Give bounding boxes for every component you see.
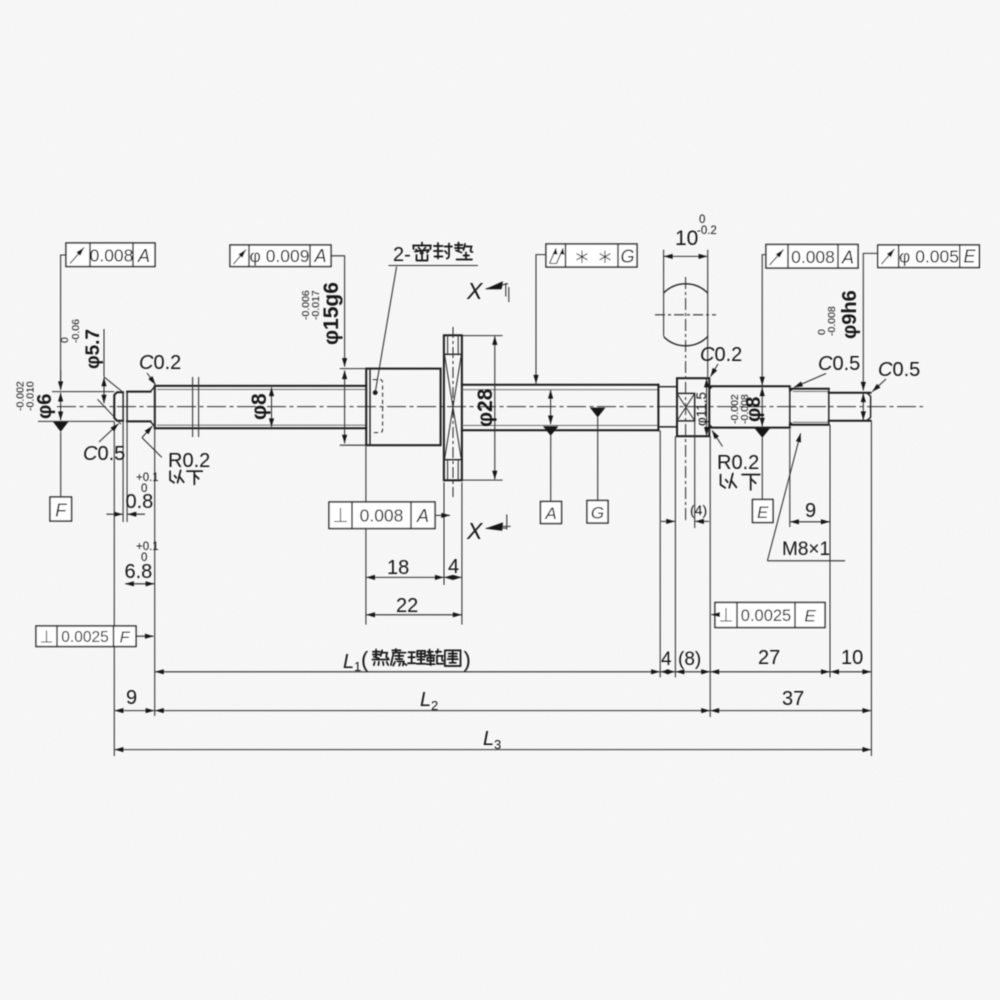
- datum A box: [541, 502, 562, 524]
- tip end face with chamfers: [867, 393, 871, 421]
- svg-text:G: G: [591, 504, 604, 523]
- ring groove 0.8 wide: [122, 392, 124, 420]
- dim L1 arrows: [155, 671, 660, 673]
- perpendicularity frame A: [329, 502, 435, 529]
- flange outline: [444, 335, 462, 480]
- block chamfer line: [369, 369, 371, 446]
- datum G stem: [597, 417, 599, 500]
- svg-text:G: G: [620, 247, 634, 267]
- datum E box: [753, 500, 774, 523]
- leader C0.5 right 2: [872, 379, 886, 392]
- dim L3 arrows: [115, 749, 871, 751]
- phi9h6 dimension arrows: [862, 393, 864, 420]
- svg-text:9: 9: [805, 500, 816, 522]
- runout frame 1 leader: [61, 255, 66, 389]
- collar right extension: [709, 436, 711, 717]
- dim 4 flange: [444, 576, 461, 578]
- phi8 right dimension arrows: [761, 387, 763, 426]
- svg-text:L: L: [483, 728, 494, 750]
- svg-text:2-: 2-: [393, 244, 411, 266]
- svg-text:27: 27: [758, 647, 780, 669]
- svg-text:10: 10: [675, 227, 698, 250]
- thread start marks: [192, 377, 194, 437]
- ball screw thread root lines: [462, 390, 658, 426]
- svg-text:0.008: 0.008: [360, 506, 404, 526]
- dim 6.8: [125, 583, 154, 585]
- dim 10 bottom: [830, 671, 871, 673]
- phi8 right chamfer: [709, 386, 712, 427]
- svg-text:10: 10: [841, 647, 863, 669]
- leader C0.2 left: [147, 373, 156, 385]
- svg-text:(4): (4): [690, 502, 707, 518]
- flange cap inner edges: [448, 335, 459, 480]
- svg-text:φ15g6: φ15g6: [320, 282, 343, 345]
- svg-text:E: E: [963, 247, 976, 267]
- dim 4 bottom: [661, 671, 676, 673]
- dim 18: [366, 576, 443, 578]
- dim 37 arrows: [711, 710, 872, 712]
- svg-text:L: L: [343, 651, 354, 673]
- dim (4) arrows: [661, 520, 675, 522]
- M8x1 underline: [767, 560, 845, 562]
- svg-text:R0.2: R0.2: [168, 450, 210, 472]
- section line X-X through flange: [452, 327, 454, 497]
- CJK glyph chu (treatment): [391, 649, 407, 666]
- svg-text:-0.010: -0.010: [25, 381, 37, 411]
- svg-text:4: 4: [448, 556, 459, 578]
- label 2-seal washer underline: [389, 265, 479, 267]
- screw end face: [657, 385, 659, 431]
- svg-text:C0.5: C0.5: [818, 353, 860, 375]
- svg-text:F: F: [120, 630, 131, 647]
- svg-text:0.0025: 0.0025: [61, 629, 108, 646]
- ball center cross horizontal: [655, 314, 716, 316]
- thread dimension arrows above datum A: [550, 390, 552, 424]
- svg-text:A: A: [313, 246, 326, 266]
- svg-text:φ9h6: φ9h6: [839, 290, 861, 339]
- phi6 extension lines: [38, 392, 114, 422]
- step extension line: [154, 386, 156, 716]
- svg-text:A: A: [416, 506, 429, 526]
- phi8 right journal: [709, 386, 790, 427]
- leader R0.2 left: [142, 438, 162, 458]
- phi11.5 dimension arrows: [706, 379, 708, 436]
- CJK glyph fan (range): [426, 649, 443, 665]
- phi28 dimension arrows: [494, 336, 496, 479]
- svg-text:0.8: 0.8: [126, 491, 154, 513]
- phi5.7 dimension line: [103, 329, 105, 377]
- CJK glyph re (heat): [372, 649, 389, 665]
- svg-text:0.0025: 0.0025: [741, 607, 791, 625]
- datum G box: [587, 501, 608, 524]
- phi15g6 journal block: [366, 369, 440, 446]
- datum F stem: [60, 432, 62, 497]
- M8 thread chamfer: [790, 389, 793, 425]
- svg-text:37: 37: [782, 688, 804, 710]
- phi15g6 extension lines: [340, 369, 366, 446]
- dim (8) bottom: [676, 671, 710, 673]
- datum F triangle: [53, 422, 68, 432]
- datum E stem: [761, 438, 763, 500]
- svg-text:A: A: [544, 504, 556, 523]
- asterisk marks: [577, 251, 588, 264]
- svg-text:-0.008: -0.008: [826, 306, 838, 336]
- svg-text:E: E: [757, 503, 769, 522]
- leader C0.5 right 1: [794, 374, 826, 388]
- chamfer C0.2 to phi8 step: [151, 386, 155, 426]
- perpendicularity frame F: [36, 626, 136, 647]
- svg-text:C0.5: C0.5: [878, 359, 920, 381]
- datum F box: [50, 497, 72, 521]
- dim 22: [366, 614, 461, 616]
- collar groove box with cross: [677, 393, 695, 421]
- ball screw thread section outline: [462, 385, 659, 431]
- M8x1 thread root lines: [793, 391, 829, 422]
- svg-text:A: A: [137, 246, 150, 266]
- svg-text:φ8: φ8: [743, 397, 765, 422]
- step face phi8 to thread: [789, 386, 791, 427]
- runout frame 5 leader: [863, 253, 878, 371]
- tip end extension: [870, 421, 872, 756]
- flange cap lines: [444, 354, 462, 459]
- seal hidden outline (dashed): [373, 380, 383, 433]
- flange cross mark: [445, 355, 462, 459]
- svg-text:0.008: 0.008: [791, 247, 835, 267]
- svg-text:C0.2: C0.2: [139, 352, 181, 374]
- svg-text:φ 0.005: φ 0.005: [899, 247, 959, 267]
- datum A triangle: [543, 426, 558, 436]
- phi8 left journal root lines: [157, 389, 366, 425]
- perpendicularity frame E: [715, 603, 825, 628]
- phi11.5 collar block: [677, 378, 709, 436]
- phi6 dimension arrows: [60, 393, 62, 420]
- end tip section: [829, 393, 871, 421]
- thread runout neck: [658, 387, 677, 427]
- svg-text:): ): [464, 647, 471, 672]
- svg-text:-0.2: -0.2: [697, 225, 717, 237]
- phi28 extension lines: [462, 336, 503, 481]
- svg-text:φ28: φ28: [474, 388, 497, 427]
- svg-text:-0.06: -0.06: [70, 319, 82, 343]
- leader M8x1: [767, 433, 800, 560]
- svg-text:φ5.7: φ5.7: [83, 329, 104, 369]
- CJK glyph mi (seal label): [413, 243, 431, 261]
- dim L2 arrows: [155, 710, 710, 712]
- CJK glyph li (process): [408, 651, 425, 664]
- extension lines 18/22: [366, 446, 462, 624]
- svg-text:4: 4: [661, 649, 672, 670]
- svg-text:E: E: [804, 607, 816, 626]
- svg-text:3: 3: [494, 737, 501, 752]
- M8x1 thread section crest: [790, 389, 829, 425]
- runout frame 2 leader: [331, 256, 345, 348]
- dim 10 top extension lines: [664, 250, 708, 378]
- svg-text:M8×1: M8×1: [782, 539, 830, 560]
- phi8 left journal outline: [155, 386, 366, 428]
- thread start extension: [789, 429, 791, 527]
- dim 9 right arrows: [790, 521, 829, 523]
- phi8 left dimension arrows: [271, 387, 273, 427]
- dim 9: [115, 710, 155, 712]
- svg-text:F: F: [55, 501, 67, 521]
- svg-text:C0.5: C0.5: [83, 443, 125, 465]
- vertical centerline through ball and collar: [685, 277, 687, 520]
- groove extension lines: [675, 421, 694, 678]
- svg-text:6.8: 6.8: [125, 561, 153, 583]
- screw end extension: [659, 431, 661, 678]
- svg-text:(8): (8): [678, 649, 701, 670]
- CJK yi-xia right (R0.2 or-less): [721, 474, 737, 488]
- runout frame 5: [878, 245, 980, 268]
- svg-text:R0.2: R0.2: [717, 452, 759, 474]
- ring groove extension lines: [123, 421, 127, 522]
- phi6 journal section: [127, 392, 150, 422]
- CJK glyph feng (seal label): [434, 243, 452, 259]
- center axis line: [57, 406, 923, 408]
- svg-text:C0.2: C0.2: [700, 344, 742, 366]
- svg-text:A: A: [841, 248, 854, 268]
- perpendicularity frame F arrow: [136, 635, 154, 637]
- datum E triangle: [755, 428, 770, 438]
- datum A stem: [550, 436, 552, 502]
- ball gauge circle over groove: [655, 284, 717, 346]
- svg-text:L: L: [420, 689, 431, 711]
- total runout frame: [546, 244, 637, 267]
- thread end extension: [829, 425, 831, 678]
- perpendicularity frame E arrow: [711, 614, 715, 616]
- dim 27 bottom: [711, 671, 830, 673]
- svg-text:18: 18: [387, 557, 409, 579]
- perpendicularity frame A arrow: [435, 514, 450, 516]
- seal leader dot: [373, 390, 378, 395]
- runout frame 4 leader: [762, 255, 766, 366]
- dim 10 top arrows: [664, 255, 707, 257]
- CJK glyph wei (enclosure): [445, 650, 461, 666]
- runout frame 4: [766, 245, 858, 269]
- svg-text:X: X: [466, 278, 484, 304]
- svg-text:2: 2: [431, 698, 438, 713]
- svg-text:X: X: [466, 518, 484, 544]
- svg-text:φ11.5: φ11.5: [694, 392, 709, 426]
- runout frame 2: [230, 245, 331, 267]
- svg-text:9: 9: [126, 687, 137, 709]
- svg-text:φ6: φ6: [34, 394, 56, 419]
- svg-text:22: 22: [396, 595, 418, 617]
- phi8 left journal step face: [154, 386, 156, 428]
- total runout frame leader: [536, 255, 546, 364]
- CJK glyph dian (seal label): [455, 243, 473, 260]
- leader C0.5 left: [99, 424, 119, 442]
- leader C0.2 right: [711, 364, 719, 377]
- seal leader line: [375, 267, 396, 393]
- leader R0.2 right: [712, 430, 723, 446]
- svg-text:(: (: [361, 647, 369, 672]
- svg-text:0.008: 0.008: [90, 246, 134, 266]
- svg-text:φ8: φ8: [248, 393, 271, 420]
- dim 0.8 arrows: [107, 513, 123, 515]
- datum G triangle: [590, 408, 605, 418]
- thread end step face: [828, 389, 830, 425]
- svg-text:φ 0.009: φ 0.009: [249, 246, 309, 266]
- CJK yi-xia left (R0.2 or-less): [170, 470, 184, 482]
- phi15g6 dimension arrows: [344, 370, 346, 443]
- phi5.7 oblique extensions: [98, 377, 123, 424]
- runout frame 1: [66, 243, 155, 267]
- shaft left stub (phi5.7 end): [114, 392, 123, 420]
- left end extension to L3: [113, 421, 115, 756]
